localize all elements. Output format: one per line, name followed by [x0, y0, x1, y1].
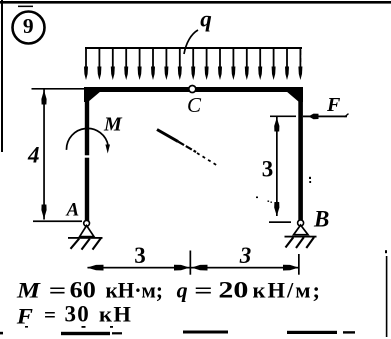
bottom dim mid tick: [190, 251, 192, 275]
right dim3 bottom arrowhead: [274, 202, 279, 216]
svg-text:F: F: [16, 304, 34, 329]
bottom dim right tick: [298, 254, 300, 275]
dim4 top arrowhead: [41, 90, 46, 105]
right corner gusset: [286, 91, 303, 102]
bottom dim line right segment: [191, 267, 299, 269]
bottom dim right arrowhead: [283, 265, 299, 271]
support A triangle: [80, 226, 94, 237]
svg-text:M: M: [16, 278, 42, 303]
left column: [85, 92, 89, 221]
hinge C circle: [189, 86, 196, 93]
right page border segment: [386, 256, 388, 337]
dim4 bottom arrowhead: [41, 205, 46, 220]
svg-text:кН·м;: кН·м;: [106, 278, 164, 303]
moment arrowhead: [105, 145, 110, 154]
top page border: [0, 1, 391, 4]
right dim3 top extension line: [270, 116, 296, 118]
distributed load right edge dotted: [300, 50, 302, 55]
moment M arc: [66, 128, 108, 149]
left corner gusset: [84, 91, 101, 102]
svg-text:=: =: [194, 278, 213, 303]
svg-text:3: 3: [239, 243, 252, 268]
bottom dim mid-right arrowhead: [192, 265, 208, 271]
right dim3 vertical line: [276, 117, 278, 216]
F arrowhead: [309, 114, 319, 120]
bottom border dashes: [61, 332, 110, 335]
scan fade nick on left column: [84, 155, 90, 157]
dim4 bottom extension line: [33, 220, 82, 222]
right dim3 bottom extension line: [269, 221, 291, 223]
right column: [298, 92, 303, 221]
right dim3 top arrowhead: [274, 118, 279, 132]
svg-text:60: 60: [70, 278, 96, 303]
svg-text:3: 3: [134, 243, 146, 268]
support A ground line: [68, 237, 103, 239]
svg-text:C: C: [187, 93, 202, 117]
distributed load arrows: [84, 47, 302, 80]
svg-text:q: q: [200, 7, 212, 32]
dim4 vertical line: [43, 90, 45, 220]
svg-text:=: =: [49, 278, 67, 303]
stray diagonal pencil mark: [157, 130, 178, 142]
q leader line: [184, 30, 198, 54]
support A pin circle: [84, 220, 90, 226]
distributed load top line: [85, 47, 302, 49]
svg-text:9: 9: [23, 14, 34, 38]
support B triangle: [294, 225, 308, 235]
support A hatches: [71, 238, 102, 250]
tiny specks above bottom dashes: [25, 326, 28, 328]
svg-text:4: 4: [27, 143, 40, 168]
svg-text:B: B: [313, 207, 329, 232]
support B ground line: [285, 236, 317, 238]
F end tick: [345, 114, 349, 117]
svg-text:F: F: [326, 94, 341, 116]
left page border: [1, 0, 3, 152]
force F line: [303, 116, 347, 118]
svg-text:20: 20: [218, 278, 248, 303]
specks: [309, 177, 311, 179]
bottom dim left arrowhead: [87, 265, 104, 271]
problem number circle 9: [13, 12, 45, 44]
dash under top border: [18, 6, 33, 8]
svg-text:A: A: [66, 200, 80, 221]
dim4 top extension line: [32, 88, 85, 90]
bottom dim line left segment: [88, 267, 191, 269]
support B pin circle: [298, 220, 304, 226]
svg-text:3: 3: [262, 157, 274, 182]
frame beam: [84, 87, 303, 92]
bottom dim mid-left arrowhead: [174, 265, 190, 271]
svg-text:M: M: [103, 114, 123, 136]
support B hatches: [286, 237, 315, 248]
